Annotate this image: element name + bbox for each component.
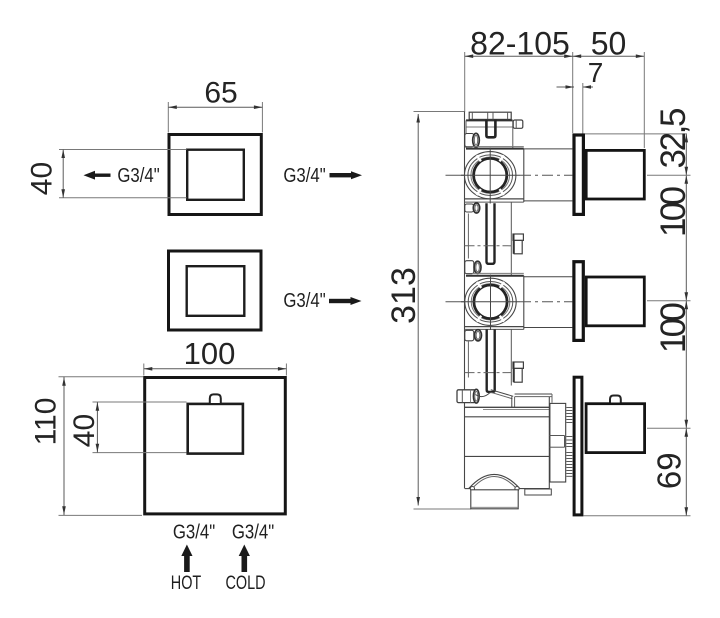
dimension 100 (plate P3 width) xyxy=(144,336,287,376)
plate P2 inner square xyxy=(187,266,245,316)
dimension 110 (plate P3 height) xyxy=(30,377,144,516)
G3/4" label hot inlet xyxy=(173,520,215,543)
G3/4" outlet label row 1 right xyxy=(283,164,325,187)
arrow up hot xyxy=(181,545,192,573)
svg-text:313: 313 xyxy=(385,267,423,324)
svg-text:40: 40 xyxy=(68,414,101,447)
dimension 100 (knob1-knob2) xyxy=(647,175,693,301)
dimension 82-105 (wall depth range) xyxy=(465,26,645,134)
svg-text:7: 7 xyxy=(588,57,604,88)
hex nut E (body 3 top left) xyxy=(457,389,479,403)
top right tab xyxy=(513,120,523,128)
step block right of body 3 xyxy=(549,403,565,482)
plate P1 outer square xyxy=(169,135,261,215)
right dimension line xyxy=(685,134,687,516)
dimension 32,5 xyxy=(585,108,693,176)
svg-text:69: 69 xyxy=(651,452,688,489)
arrow right (outlet row 1) xyxy=(330,171,363,179)
svg-text:110: 110 xyxy=(30,398,63,446)
svg-text:G3/4": G3/4" xyxy=(283,164,325,187)
plate P3 handle square xyxy=(188,404,243,454)
dimension 100 (knob2-knob3) xyxy=(647,301,693,428)
valve 2 cartridge ellipses xyxy=(465,278,516,325)
bolt B1 (side port plug) xyxy=(513,234,523,254)
arrow right (outlet row 2) xyxy=(329,297,362,305)
valve block 2 xyxy=(465,273,524,329)
arrow up cold xyxy=(239,545,250,573)
dimension 40 (plate P1 port height) xyxy=(26,150,187,198)
dimension 65 (plate P1 width) xyxy=(168,77,262,133)
knob K1 xyxy=(586,150,644,199)
G3/4" outlet label row 2 right xyxy=(283,289,325,312)
pipe U between valve 1 and 2 xyxy=(487,203,495,263)
dimension 7 (flange thickness) xyxy=(557,57,604,134)
svg-text:G3/4": G3/4" xyxy=(173,520,215,543)
port centerline 1 xyxy=(465,245,512,247)
body left edge xyxy=(464,112,466,489)
svg-text:G3/4": G3/4" xyxy=(283,289,325,312)
saddle curve body 3 top xyxy=(476,392,491,397)
top fitting collar xyxy=(466,120,513,148)
plate P3 handle tab xyxy=(210,394,221,403)
flange F1 xyxy=(574,135,583,214)
knob K2 xyxy=(586,277,644,326)
body 3 main block xyxy=(465,397,550,490)
dimension 40 (plate P3 handle) xyxy=(68,402,187,453)
dimension 313 (body height) xyxy=(385,112,471,510)
mounting ear D xyxy=(465,330,482,341)
svg-text:40: 40 xyxy=(26,162,59,195)
valve 2 centerlines xyxy=(446,275,573,331)
sleeve lines valve 2 xyxy=(524,277,573,328)
bolt B2 (side port plug) xyxy=(513,362,523,382)
svg-text:HOT: HOT xyxy=(171,572,201,593)
port centerline 2 xyxy=(465,372,512,374)
dimension 50 (knob projection) xyxy=(573,26,645,149)
HOT label xyxy=(171,572,201,593)
svg-text:100: 100 xyxy=(654,186,693,237)
svg-text:G3/4": G3/4" xyxy=(117,164,159,187)
mounting ear C xyxy=(465,261,481,274)
pipe U between valve 2 and 3 xyxy=(487,329,495,392)
sleeve lines valve 1 xyxy=(524,149,573,201)
svg-text:32,5: 32,5 xyxy=(654,108,693,169)
COLD label xyxy=(225,572,265,593)
valve 1 centerlines xyxy=(446,148,573,204)
svg-text:65: 65 xyxy=(204,77,237,110)
dimension 69 xyxy=(583,428,690,516)
spline ribs xyxy=(566,408,572,477)
plate P1 inner square xyxy=(187,150,244,200)
plate P3 outer square xyxy=(145,378,286,514)
svg-text:G3/4": G3/4" xyxy=(232,520,274,543)
body 3 top right band xyxy=(515,394,552,403)
plate P2 outer square xyxy=(169,251,262,330)
svg-text:82-105: 82-105 xyxy=(470,26,570,62)
G3/4" label cold inlet xyxy=(232,520,274,543)
slanted inlet connection xyxy=(491,390,515,408)
svg-text:COLD: COLD xyxy=(225,572,265,593)
mounting ear B xyxy=(465,203,480,213)
mounting ear A xyxy=(465,133,480,147)
top U channel xyxy=(486,120,495,138)
svg-text:100: 100 xyxy=(184,336,236,371)
body side lines between 1-2 xyxy=(468,202,511,276)
valve block 1 xyxy=(465,147,524,203)
knob K3 tab xyxy=(610,396,621,403)
flange F3 xyxy=(574,377,582,515)
outlet arch xyxy=(469,474,520,490)
bottom outlet box xyxy=(471,490,518,509)
knob K3 xyxy=(586,404,645,453)
flange F2 xyxy=(574,262,583,341)
svg-text:100: 100 xyxy=(654,302,693,353)
arrow left (inlet row 1) xyxy=(84,171,111,180)
G3/4" inlet label row 1 left xyxy=(117,164,159,187)
top inlet fitting nuts xyxy=(469,112,511,119)
valve 1 cartridge ellipses xyxy=(465,152,516,199)
right foot slab xyxy=(525,489,552,495)
body side lines between 2-3 xyxy=(468,329,511,385)
